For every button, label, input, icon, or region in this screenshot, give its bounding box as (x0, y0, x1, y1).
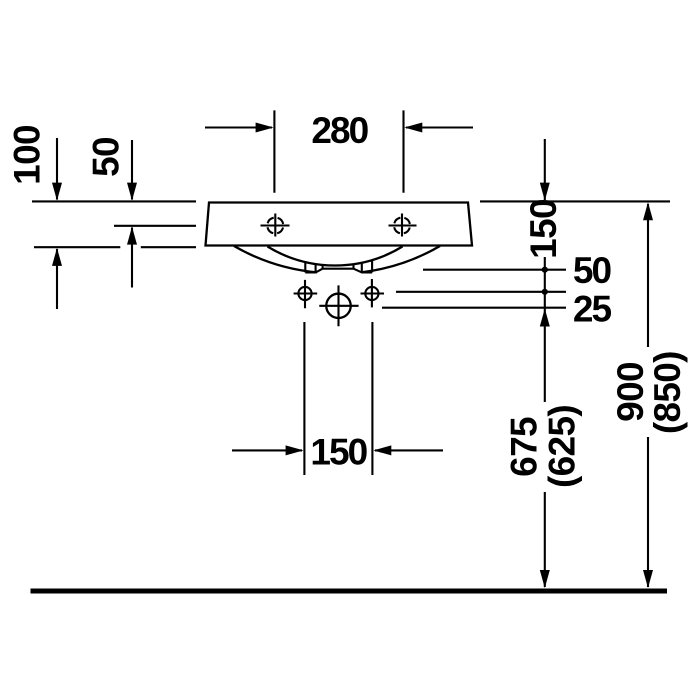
label 100 (6, 125, 47, 185)
dim 50 lower line (131, 228, 133, 288)
arrowhead dim150 right top (points down) (540, 183, 550, 201)
reference line right (rim top level) (480, 200, 670, 202)
faucet hole right dashed circle (394, 218, 410, 234)
svg-text:25: 25 (573, 289, 612, 330)
drain hole cross (319, 285, 358, 326)
arrowhead dim25 (points up) (540, 309, 550, 327)
reference line 50 level (423, 269, 566, 271)
arrowhead dim900 bottom (points down) (643, 570, 653, 588)
dim 900 lower line (647, 437, 649, 587)
svg-text:150: 150 (523, 199, 564, 259)
fixing hole left circle (298, 287, 311, 300)
fixing hole right circle (365, 287, 378, 300)
arrowhead dim280 left (points right) (256, 123, 274, 133)
label (625) (541, 405, 582, 488)
dim 280 arrow line left (205, 126, 272, 128)
dim 150 bottom extension line left (303, 322, 305, 475)
reference line drain level (382, 307, 566, 309)
faucet hole left cross (261, 214, 290, 237)
svg-text:280: 280 (311, 110, 368, 151)
label 675 (503, 417, 544, 477)
label 150 right (523, 199, 564, 259)
reference line left (rim top level) (32, 200, 196, 202)
dim 280 arrow line right (406, 126, 473, 128)
faucet hole right cross (389, 214, 417, 237)
dim 100 lower line (56, 249, 58, 309)
arrowhead dim50 top (points down) (127, 183, 137, 201)
arrowhead dim50 bottom (points up) (127, 227, 137, 245)
dim 675 lower line (544, 492, 546, 587)
arrowhead dim900 top (points up) (643, 202, 653, 220)
bowl outer arc right segment (361, 246, 440, 272)
dim 150 right upper line (544, 139, 546, 200)
chain dim dot lower (542, 289, 548, 295)
drain fitting right bracket (362, 261, 372, 272)
label 900 (610, 362, 651, 422)
svg-text:(625): (625) (541, 405, 582, 488)
svg-text:(850): (850) (647, 351, 688, 434)
arrowhead dim280 right (points left) (404, 123, 422, 133)
reference line left (rim bottom level) seg2 (141, 246, 196, 248)
drain hole circle (326, 294, 351, 319)
chain dim dot upper (542, 267, 548, 273)
drain fitting left bracket (305, 261, 315, 272)
dim 150 bottom arrow line right (375, 449, 443, 451)
arrowhead dim100 bottom (points up) (52, 248, 62, 266)
faucet hole left dashed circle (267, 218, 283, 234)
fixing hole left cross (294, 280, 318, 308)
arrowhead dim100 top (points down) (52, 183, 62, 201)
svg-text:50: 50 (573, 250, 612, 291)
dim 100 upper line (56, 138, 58, 200)
svg-text:50: 50 (85, 137, 126, 177)
dim 150 bottom extension line right (371, 322, 373, 475)
arrowhead dim675 bottom (points down) (540, 570, 550, 588)
dim 280 extension line right (402, 110, 404, 192)
dim 150 bottom arrow line left (232, 449, 302, 451)
dim 900 upper line (647, 204, 649, 347)
svg-text:150: 150 (310, 432, 367, 473)
arrowhead dim150 bottom right (points left) (373, 445, 391, 455)
reference line left (faucet axis level) (114, 225, 196, 227)
fixing hole right cross (361, 279, 385, 307)
floor line (31, 589, 668, 594)
dim 280 extension line left (273, 110, 275, 192)
svg-text:100: 100 (6, 125, 47, 185)
label (850) (647, 351, 688, 434)
svg-text:675: 675 (503, 417, 544, 477)
bowl inner arc (268, 247, 403, 266)
label 50 left (85, 137, 126, 177)
reference line 25 level (396, 291, 566, 293)
arrowhead dim150 bottom left (points right) (286, 445, 304, 455)
basin rim trapezoid (206, 203, 473, 246)
dim chain line 150-50-25 (544, 257, 546, 402)
svg-text:900: 900 (610, 362, 651, 422)
dim 50 upper line (131, 140, 133, 200)
bowl outer arc left segment (234, 246, 317, 272)
drain fitting center shelf (316, 265, 362, 272)
reference line left (rim bottom level) seg1 (34, 246, 120, 248)
